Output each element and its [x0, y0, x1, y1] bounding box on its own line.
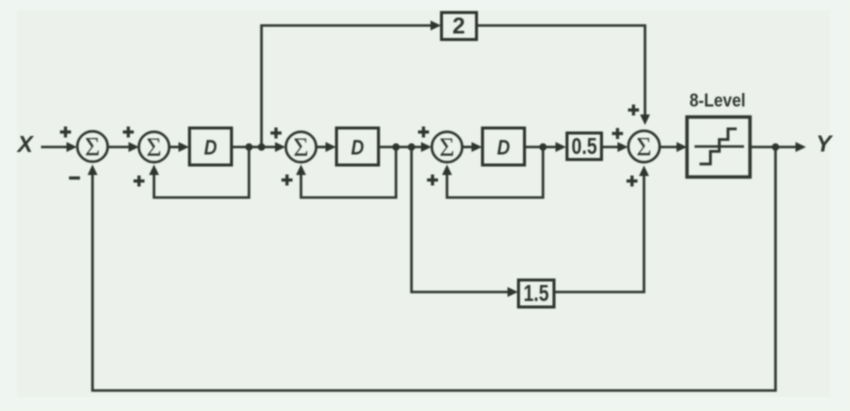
node E (D3 output feedback tap)	[539, 143, 546, 150]
plus sign at S1 input	[60, 127, 71, 138]
svg-text:1.5: 1.5	[523, 280, 549, 306]
plus sign at S5 input	[612, 128, 623, 139]
node A (D1 output feedback tap)	[245, 143, 252, 150]
delay block D3	[483, 128, 525, 165]
minus sign at S1 feedback input	[69, 176, 80, 179]
svg-text:8-Level: 8-Level	[690, 91, 746, 111]
wire S2 to D1	[170, 142, 190, 152]
svg-text:D: D	[204, 137, 217, 160]
summer S5	[628, 131, 659, 162]
summer S3	[286, 132, 316, 162]
gain block 1.5	[519, 280, 555, 307]
wire S5 to quantizer	[660, 142, 687, 152]
svg-text:Σ: Σ	[293, 133, 308, 162]
feedback wire node C to S3	[296, 147, 396, 198]
node C (D2 output feedback tap)	[392, 143, 399, 150]
wire node D down to gain 1.5	[412, 147, 519, 297]
svg-text:2: 2	[452, 13, 465, 39]
wire node B up to gain 2	[262, 21, 442, 148]
wire gain 1.5 to S5 bottom input	[553, 166, 649, 293]
delay block D1	[190, 128, 232, 165]
wire D2 to S4	[379, 142, 432, 152]
wire gain 2 to S5 top input	[477, 26, 650, 126]
svg-text:Σ: Σ	[85, 133, 100, 162]
plus sign at S5 bottom input	[627, 176, 638, 187]
plus sign at S3 input	[271, 128, 282, 139]
svg-text:Σ: Σ	[439, 133, 454, 162]
wire S1 to S2	[108, 142, 139, 152]
feedback wire node E to S4	[442, 147, 543, 198]
svg-text:Σ: Σ	[636, 133, 651, 162]
wire S3 to D2	[317, 142, 337, 152]
plus sign at S2 feedback input	[134, 176, 145, 187]
svg-text:Y: Y	[816, 131, 834, 157]
delay block D2	[337, 128, 379, 165]
feedback wire output node to S1	[88, 147, 776, 391]
svg-text:D: D	[497, 137, 510, 160]
wire quantizer to Y	[750, 142, 806, 152]
plus sign at S3 feedback input	[282, 175, 293, 186]
svg-text:D: D	[351, 137, 364, 160]
quantizer staircase symbol	[695, 129, 745, 164]
gain block 0.5	[567, 133, 602, 160]
gain block 2	[442, 13, 477, 40]
plus sign at S2 input	[123, 127, 134, 138]
wire X to S1	[41, 142, 77, 152]
svg-text:X: X	[16, 131, 35, 157]
plus sign at S4 input	[418, 127, 429, 138]
wire D1 to S3	[232, 142, 286, 152]
node F (output tap)	[772, 143, 779, 150]
plus sign at S4 feedback input	[427, 175, 438, 186]
summer S2	[139, 132, 169, 162]
summer S4	[432, 132, 462, 162]
wire D3 to gain 0.5	[525, 142, 567, 152]
quantizer block (8-level)	[687, 117, 750, 177]
summer S1	[77, 131, 107, 161]
wire gain 0.5 to S5	[603, 142, 629, 152]
plus sign at S5 top input	[628, 105, 639, 116]
wire S4 to D3	[463, 142, 483, 152]
svg-text:Σ: Σ	[146, 133, 161, 162]
node B (feedforward tap to gain 2)	[258, 143, 265, 150]
node D (tap to gain 1.5)	[408, 143, 415, 150]
feedback wire node A to S2	[149, 147, 249, 198]
svg-text:0.5: 0.5	[572, 133, 598, 159]
